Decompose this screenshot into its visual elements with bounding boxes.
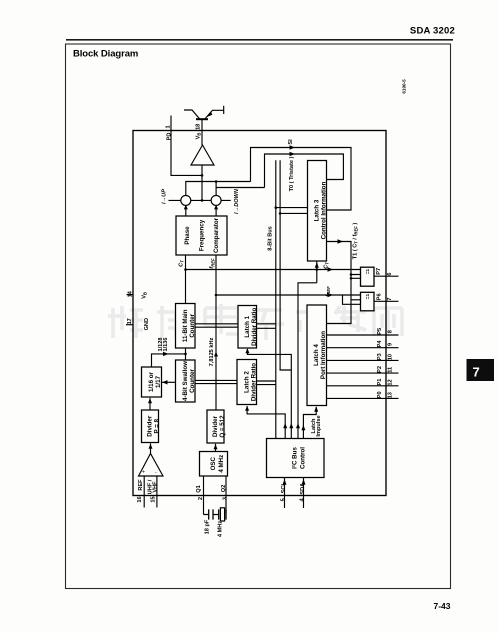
- wire line B fREF to XOR2: [216, 295, 361, 304]
- svg-text:Control: Control: [300, 447, 307, 469]
- wire pin3 Q2: [225, 476, 227, 515]
- wire T1 stub into XOR2: [351, 299, 361, 301]
- svg-text:Block Diagram: Block Diagram: [73, 49, 138, 60]
- svg-text:11: 11: [387, 367, 393, 373]
- svg-text:I²C Bus: I²C Bus: [292, 447, 299, 469]
- svg-text:P0: P0: [377, 391, 383, 398]
- wire input amp to divider P: [150, 443, 152, 453]
- svg-text:Latch 2: Latch 2: [244, 371, 251, 393]
- block divider Q=512: [207, 410, 226, 443]
- node CT branch: [184, 268, 187, 271]
- svg-text:CT: CT: [179, 260, 185, 267]
- wire divider Q to OSC: [215, 444, 217, 452]
- node VB to center rail: [201, 199, 204, 202]
- page border frame: [66, 44, 451, 589]
- transistor Q (external, above PD/VB): [184, 106, 224, 119]
- block OSC 4 MHz: [200, 452, 228, 477]
- rotated small labels: [127, 124, 394, 537]
- svg-text:=1: =1: [365, 294, 371, 300]
- svg-text:12: 12: [387, 379, 393, 385]
- svg-text:14: 14: [127, 290, 133, 297]
- svg-text:Counter: Counter: [189, 313, 196, 337]
- wire P7 output: [374, 275, 399, 277]
- svg-text:9: 9: [387, 343, 393, 346]
- wire CT output of PFC down to main counter: [185, 255, 187, 304]
- wire center rail through sources: [169, 199, 231, 201]
- wire pin2 Q1: [203, 476, 205, 515]
- svg-text:Latch 3: Latch 3: [314, 199, 321, 221]
- block Latch4 Port Information: [307, 305, 327, 406]
- gate XOR2 =1: [361, 292, 375, 311]
- wire divider P to prescaler: [149, 398, 151, 410]
- svg-text:=1: =1: [365, 268, 371, 274]
- node PD/VB junction: [201, 174, 204, 177]
- svg-text:1: 1: [165, 125, 171, 128]
- wire pin16 REF: [143, 476, 145, 508]
- svg-text:P4: P4: [377, 340, 383, 348]
- svg-text:7: 7: [387, 297, 393, 300]
- svg-text:-: -: [155, 470, 157, 476]
- svg-text:4 MHz: 4 MHz: [218, 521, 224, 537]
- svg-text:2: 2: [198, 497, 204, 500]
- capacitor 18pF and crystal 4MHz: [204, 514, 219, 516]
- wire swallow counter modulus control to prescaler: [162, 381, 176, 383]
- block Latch1 Divider Ratio: [238, 306, 258, 349]
- wire PFC to I-DOWN arrow: [215, 207, 217, 216]
- svg-text:Port Information: Port Information: [320, 331, 327, 379]
- svg-text:5: 5: [280, 498, 286, 501]
- svg-text:PD: PD: [166, 133, 172, 141]
- op-amp U1 (VB buffer triangle): [191, 145, 214, 165]
- svg-text:7-43: 7-43: [433, 601, 450, 611]
- wire pin15 UHF/VHF: [156, 476, 158, 508]
- arrow on line B: [328, 293, 334, 297]
- svg-text:1/136: 1/136: [163, 338, 169, 352]
- block Latch3 Control Information: [308, 161, 328, 262]
- svg-text:6: 6: [387, 272, 393, 275]
- svg-text:P5: P5: [377, 328, 383, 335]
- wire main counter to swallow counter vertical: [185, 348, 187, 360]
- pin stub 14 VB: [127, 294, 134, 296]
- svg-text:4: 4: [300, 497, 306, 501]
- bus swallow to latch2 (double line): [195, 380, 237, 383]
- block divider P=8: [142, 410, 161, 443]
- bus main counter to latch1 (double line): [195, 324, 238, 327]
- svg-text:16: 16: [137, 496, 143, 502]
- wire pin18 VB from transistor base down to amp: [201, 120, 203, 145]
- arrow up on fREF vertical: [214, 352, 218, 357]
- block prescaler 1/16 or 1/17: [142, 367, 163, 397]
- wire charge pump top rail y181.5: [186, 182, 251, 196]
- wire VB amp output down: [201, 165, 203, 200]
- wire loop T0 path A: [251, 148, 352, 211]
- wire right source top to rail y187.5: [216, 182, 264, 196]
- svg-text:P1: P1: [377, 379, 383, 386]
- pin stub 17 GND: [126, 324, 133, 326]
- wire3 I2C to latch3 strobe: [298, 283, 317, 439]
- svg-text:1/16 or: 1/16 or: [148, 371, 155, 392]
- svg-text:REF: REF: [138, 479, 144, 491]
- wire PFC to I-UP arrow: [185, 207, 187, 216]
- arrow on line A: [328, 267, 334, 271]
- current source I-DOWN: [211, 195, 221, 205]
- svg-text:8: 8: [387, 330, 393, 333]
- svg-text:7,8125 kHz: 7,8125 kHz: [209, 337, 215, 366]
- svg-text:1/17: 1/17: [155, 375, 162, 388]
- svg-text:Divider Ratio: Divider Ratio: [251, 363, 258, 401]
- wire prescaler output to counters: [152, 354, 186, 367]
- svg-text:Divider: Divider: [212, 415, 219, 437]
- block PFC: Phase Frequency Comparator: [176, 216, 227, 255]
- svg-text:6190-5: 6190-5: [402, 79, 407, 94]
- block Latch2 Divider Ratio: [237, 360, 258, 405]
- svg-text:GND: GND: [144, 318, 150, 330]
- wire 8-bit bus line v2: [280, 160, 291, 370]
- svg-text:fREF: fREF: [209, 258, 215, 269]
- svg-text:T0 ( Tristate ): T0 ( Tristate ): [289, 156, 295, 191]
- wire bus stub to latch3 lower: [280, 212, 307, 214]
- inner diagram frame: [133, 131, 386, 496]
- svg-text:I→DOWN: I→DOWN: [234, 188, 240, 214]
- gate XOR1 =1: [361, 267, 375, 286]
- svg-text:Q1: Q1: [196, 485, 202, 492]
- svg-text:18: 18: [195, 124, 201, 130]
- watermark (faint): [108, 304, 402, 340]
- svg-text:Comparator: Comparator: [213, 217, 220, 253]
- wire 8-bit bus line v1: [275, 160, 277, 439]
- svg-text:Q = 512: Q = 512: [219, 415, 226, 438]
- node fREF branch: [215, 294, 218, 297]
- wire loop SI path B: [265, 154, 344, 188]
- wire1 I2C to latch2 load: [247, 406, 285, 439]
- wire P6 output: [374, 300, 399, 302]
- svg-text:Latch 4: Latch 4: [313, 344, 320, 366]
- wire4 I2C latch impulse to latch4: [303, 407, 316, 439]
- svg-text:Frequency: Frequency: [199, 219, 206, 251]
- svg-text:VB: VB: [142, 292, 148, 299]
- svg-text:T1 ( CT / fREF ): T1 ( CT / fREF ): [353, 223, 359, 260]
- svg-text:CT: CT: [324, 262, 330, 269]
- svg-text:P = 8: P = 8: [154, 418, 161, 433]
- svg-text:+: +: [142, 470, 145, 476]
- svg-text:15: 15: [151, 496, 157, 502]
- svg-text:I→UP: I→UP: [162, 189, 168, 204]
- svg-text:Counter: Counter: [189, 369, 196, 393]
- svg-text:10: 10: [387, 354, 393, 360]
- block 4-bit swallow counter: [176, 360, 197, 402]
- svg-text:Impulse: Impulse: [316, 415, 322, 436]
- wire fREF vertical from divider Q to PFC: [215, 255, 217, 410]
- svg-text:4 MHz: 4 MHz: [218, 455, 225, 473]
- arrow on path A: [290, 145, 296, 149]
- svg-text:P3: P3: [377, 353, 383, 360]
- svg-text:Latch 1: Latch 1: [244, 315, 251, 337]
- svg-text:SDA 3202: SDA 3202: [410, 26, 455, 37]
- svg-text:P6: P6: [376, 293, 382, 300]
- svg-text:P2: P2: [377, 366, 383, 373]
- svg-text:SI: SI: [288, 139, 294, 145]
- svg-text:17: 17: [127, 318, 133, 324]
- svg-text:SCL: SCL: [281, 482, 287, 494]
- wire T1 stubs into XOR1: [351, 275, 361, 279]
- op-amp input (REF/UHF-VHF): [126, 295, 399, 522]
- arrow on path B: [290, 152, 296, 156]
- wire bus stub to latch3 upper: [276, 207, 308, 209]
- svg-text:Divider: Divider: [147, 415, 154, 437]
- chapter tab 7: [467, 359, 495, 381]
- pin stubs P5..P0: [327, 334, 399, 336]
- svg-text:VB: VB: [195, 133, 201, 140]
- svg-text:P7: P7: [376, 268, 382, 275]
- bus latch2 to 8-bit bus (double line): [257, 381, 276, 385]
- svg-text:11-Bit Main: 11-Bit Main: [182, 309, 189, 342]
- svg-text:18 pF: 18 pF: [204, 519, 210, 534]
- svg-text:VHF: VHF: [153, 481, 159, 493]
- svg-text:7: 7: [473, 365, 480, 380]
- wire pin1 PD: [171, 116, 202, 176]
- wire pin5 SCL: [284, 478, 286, 508]
- svg-text:Divider Ratio: Divider Ratio: [251, 308, 258, 346]
- wire pin4 SDA: [303, 478, 305, 508]
- node right source top: [215, 180, 218, 183]
- header rule: [66, 39, 453, 41]
- svg-text:Q2: Q2: [221, 485, 227, 492]
- svg-text:OSC: OSC: [210, 456, 217, 470]
- wire latch3 strobe up arrow: [316, 262, 318, 283]
- wire2 I2C to latch1 load: [247, 349, 291, 439]
- svg-text:SDA: SDA: [300, 483, 306, 495]
- svg-text:Phase: Phase: [184, 226, 191, 245]
- block I2C bus control: [267, 439, 325, 478]
- current source I-UP: [181, 195, 191, 205]
- svg-text:fREF: fREF: [325, 286, 331, 297]
- svg-text:13: 13: [387, 392, 393, 398]
- block 11-bit main counter: [176, 304, 197, 349]
- svg-text:8-Bit Bus: 8-Bit Bus: [268, 226, 274, 251]
- svg-text:3: 3: [223, 497, 229, 500]
- wire line A CT to XOR1: [186, 269, 361, 271]
- wire T1 from latch3 to XOR gates: [327, 242, 352, 324]
- bus latch1 to 8-bit bus (double line): [257, 324, 276, 329]
- svg-text:4-Bit Swallow: 4-Bit Swallow: [182, 361, 189, 401]
- svg-text:Control Information: Control Information: [321, 181, 328, 239]
